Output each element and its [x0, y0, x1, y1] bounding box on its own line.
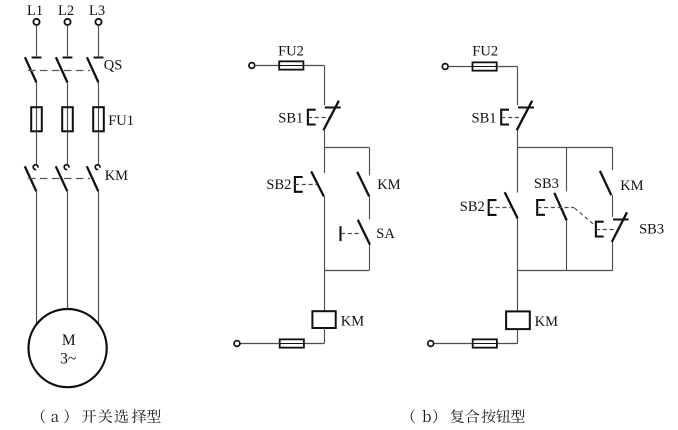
- wire to motor phase 2: [67, 191, 69, 309]
- svg-text:SB2: SB2: [266, 177, 291, 193]
- switch QS pole 1 blade: [25, 57, 37, 82]
- char 复: [451, 409, 465, 423]
- contactor KM main contact 1 blade: [25, 166, 37, 191]
- contactor coil KM (right): [506, 311, 530, 329]
- contactor KM main contact 1 arc: [33, 165, 38, 170]
- char 开: [82, 410, 96, 423]
- pushbutton SB3 NC seat bar: [613, 219, 629, 221]
- wire: [566, 220, 568, 270]
- wire: [304, 343, 324, 345]
- pushbutton SB1 (right) actuator: [501, 110, 509, 125]
- svg-text:L2: L2: [58, 3, 74, 19]
- fuse FU1 element 2: [62, 107, 73, 131]
- svg-text:L3: L3: [89, 3, 105, 19]
- wire: [324, 66, 326, 106]
- wire: [517, 271, 519, 312]
- wire: [324, 130, 326, 148]
- wire through fuse 1: [36, 107, 38, 131]
- wire right branch (middle): [369, 148, 371, 176]
- wire: [324, 270, 326, 311]
- wire: [517, 130, 519, 147]
- svg-text:FU1: FU1: [108, 113, 134, 129]
- pushbutton SB2 (right) link: [489, 207, 511, 209]
- pushbutton SB3 NO actuator: [537, 200, 545, 215]
- wire: [255, 65, 280, 67]
- pushbutton SB2 (right) actuator: [489, 200, 497, 215]
- wire to motor phase 1: [36, 191, 38, 324]
- contactor KM aux contact blade (right): [600, 171, 611, 195]
- svg-text:KM: KM: [535, 314, 558, 330]
- wire to motor phase 3: [98, 191, 100, 323]
- svg-text:SB1: SB1: [278, 111, 303, 127]
- svg-text:KM: KM: [620, 178, 643, 194]
- wire through fuse 2: [67, 107, 69, 131]
- wire: [369, 245, 371, 270]
- svg-text:KM: KM: [105, 168, 128, 184]
- switch QS pole 1 fixed contact: [32, 57, 42, 59]
- svg-text:FU2: FU2: [472, 43, 498, 59]
- KM linkage dashed line: [28, 178, 90, 180]
- pushbutton SB3 NO blade: [554, 193, 566, 221]
- wire through fuse 3: [98, 107, 100, 131]
- switch QS pole 3 fixed contact: [94, 57, 104, 59]
- contactor KM main contact 3 blade: [87, 166, 99, 191]
- svg-text:QS: QS: [104, 58, 123, 74]
- SB3 compound-button diagonal linkage: [575, 208, 596, 226]
- contactor KM main contact 2 arc: [64, 165, 69, 170]
- pushbutton SB3 NC blade: [612, 212, 627, 242]
- char （: [411, 409, 415, 423]
- switch QS pole 3 blade: [87, 57, 99, 82]
- switch SA link: [341, 233, 361, 235]
- wire middle branch (right): [566, 147, 568, 191]
- pushbutton SB1 (middle) NC seat bar: [325, 107, 341, 109]
- wire: [98, 131, 100, 164]
- pushbutton SB1 (middle) link: [308, 117, 329, 119]
- wire: [36, 25, 38, 56]
- wire top junction (middle): [324, 147, 369, 149]
- terminal L3: [95, 19, 101, 25]
- svg-text:SA: SA: [376, 226, 395, 242]
- svg-text:3~: 3~: [60, 351, 76, 368]
- pushbutton SB2 (middle) actuator: [295, 177, 303, 192]
- svg-text:KM: KM: [341, 313, 364, 329]
- contactor KM main contact 2 blade: [56, 166, 68, 191]
- wire: [517, 329, 519, 344]
- char 按: [482, 409, 496, 423]
- wire: [240, 343, 280, 345]
- char ）: [64, 409, 68, 423]
- wire: [303, 65, 324, 67]
- switch SA blade: [358, 220, 370, 245]
- fuse (right bottom): [473, 339, 497, 347]
- svg-text:SB1: SB1: [472, 111, 497, 127]
- svg-text:M: M: [62, 332, 76, 349]
- contactor coil KM (middle): [312, 311, 335, 328]
- wire: [434, 343, 473, 345]
- wire: [67, 131, 69, 164]
- contactor KM main contact 3 arc: [95, 165, 100, 170]
- svg-text:SB3: SB3: [639, 222, 664, 238]
- switch SA operator bar: [339, 226, 341, 241]
- motor M1 circle: [29, 309, 107, 387]
- fuse FU2 (middle): [279, 61, 303, 69]
- QS linkage dashed line: [28, 70, 90, 72]
- wire: [324, 197, 326, 271]
- pushbutton SB3 NC actuator: [596, 222, 604, 237]
- pushbutton SB1 (right) link: [501, 117, 522, 119]
- wire: [497, 343, 517, 345]
- wire: [67, 82, 69, 107]
- pushbutton SB2 (right) blade: [505, 192, 518, 218]
- pushbutton SB1 (right) blade: [517, 101, 533, 131]
- wire right branch (right circuit): [612, 147, 614, 170]
- pushbutton SB2 (middle) link: [295, 184, 317, 186]
- char 合: [465, 409, 479, 423]
- wire: [98, 25, 100, 56]
- fuse FU2 (right): [473, 62, 497, 70]
- wire: [324, 148, 326, 173]
- svg-text:KM: KM: [377, 177, 400, 193]
- pushbutton SB1 (right) NC seat bar: [518, 107, 534, 109]
- wire: [612, 195, 614, 217]
- wire: [324, 328, 326, 344]
- char 型: [511, 409, 525, 422]
- char （: [41, 409, 45, 423]
- switch QS pole 2 fixed contact: [63, 57, 73, 59]
- terminal (right circuit, bottom): [428, 341, 434, 347]
- fuse (middle bottom): [280, 339, 304, 347]
- pushbutton SB3 NO link: [537, 207, 574, 209]
- terminal L2: [64, 19, 70, 25]
- char 关: [98, 409, 112, 423]
- char ）: [433, 409, 437, 423]
- char b: [423, 410, 431, 422]
- wire top junction (right): [517, 147, 612, 149]
- terminal (right circuit, top): [442, 64, 448, 70]
- wire: [67, 25, 69, 56]
- wire: [36, 131, 38, 164]
- char 钮: [496, 409, 510, 422]
- pushbutton SB2 (middle) blade: [311, 171, 324, 196]
- pushbutton SB1 (middle) actuator: [308, 110, 316, 125]
- fuse FU1 element 3: [93, 107, 104, 131]
- char a: [52, 414, 59, 422]
- wire bottom junction (middle): [324, 270, 369, 272]
- wire: [517, 218, 519, 270]
- svg-text:SB2: SB2: [460, 199, 485, 215]
- char 型: [147, 409, 161, 422]
- wire: [36, 82, 38, 107]
- char 择: [132, 409, 146, 423]
- switch QS pole 2 blade: [56, 57, 68, 82]
- wire: [448, 66, 473, 68]
- terminal (middle circuit, top): [249, 63, 255, 69]
- terminal L1: [33, 19, 39, 25]
- wire: [497, 66, 518, 68]
- wire: [517, 147, 519, 192]
- svg-text:FU2: FU2: [278, 43, 304, 59]
- fuse FU1 element 1: [31, 107, 42, 131]
- terminal (middle circuit, bottom): [234, 341, 240, 347]
- wire: [612, 242, 614, 271]
- svg-text:SB3: SB3: [534, 176, 559, 192]
- char 选: [115, 409, 129, 423]
- wire: [98, 82, 100, 107]
- wire: [517, 67, 519, 106]
- contactor KM aux contact blade (middle): [357, 172, 369, 197]
- svg-text:L1: L1: [27, 3, 43, 19]
- wire bottom junction (right): [517, 270, 612, 272]
- wire: [369, 196, 371, 219]
- pushbutton SB1 (middle) blade: [323, 101, 339, 131]
- pushbutton SB3 NC link: [596, 229, 617, 231]
